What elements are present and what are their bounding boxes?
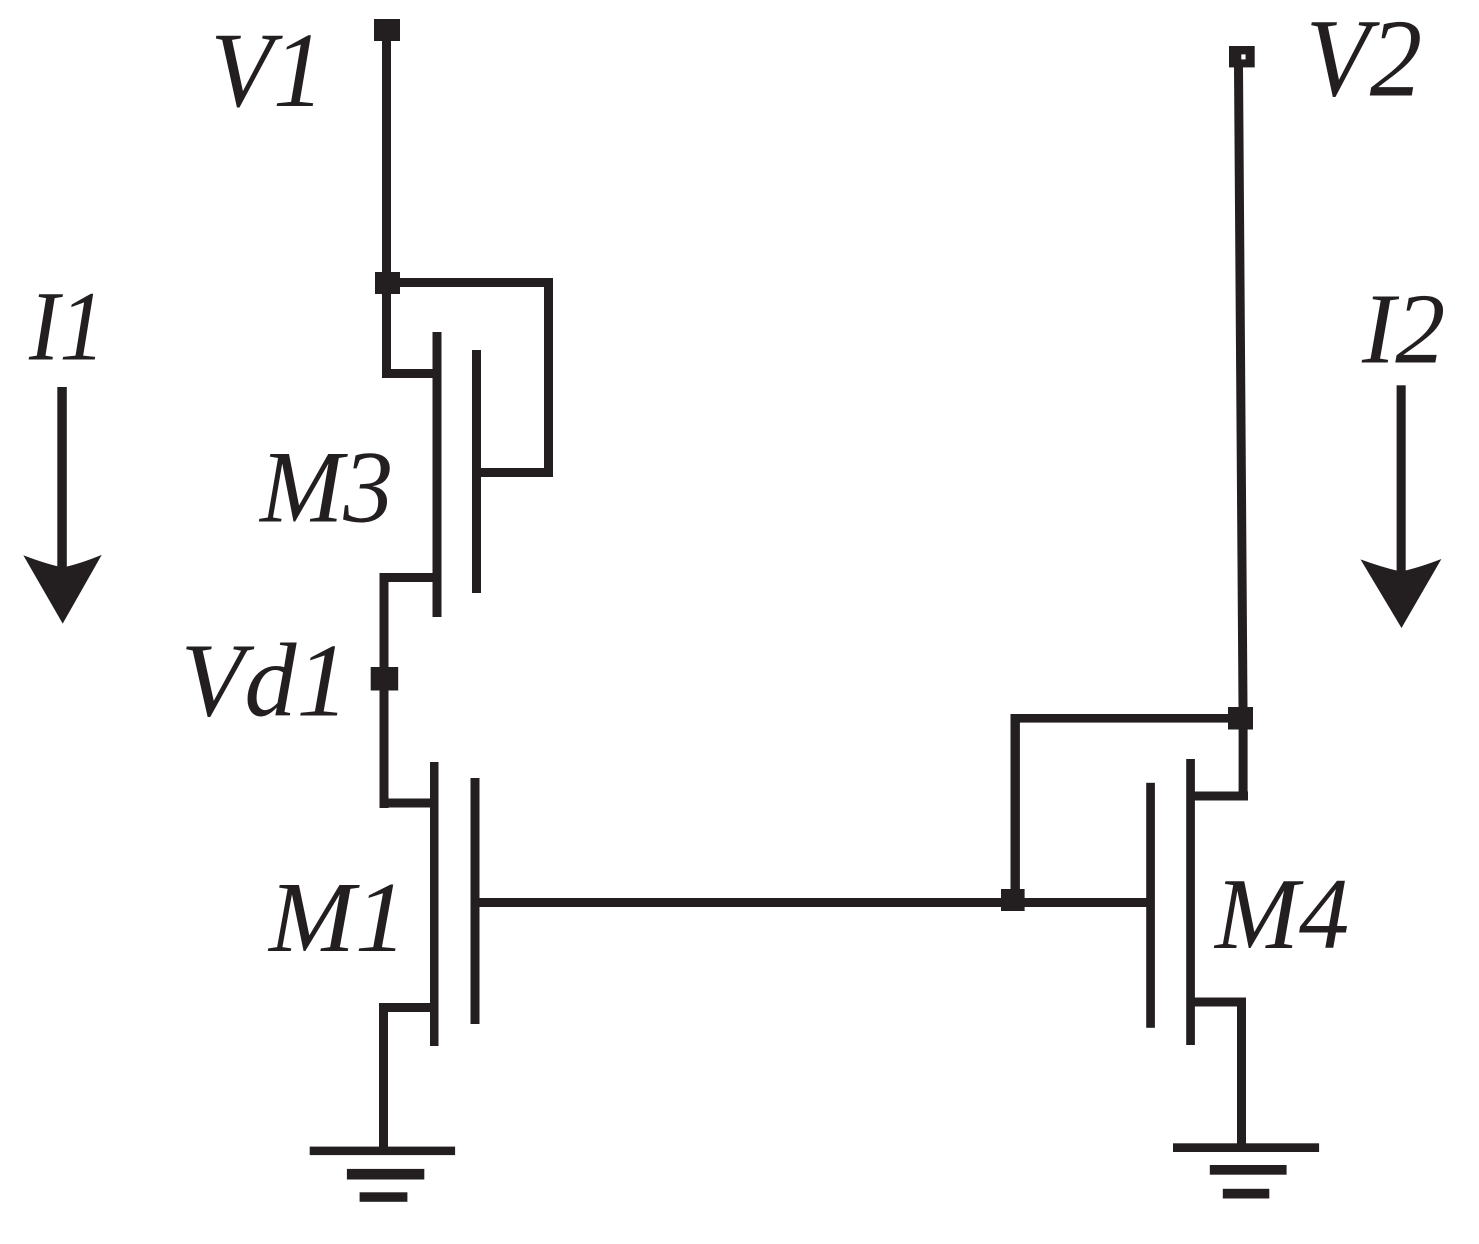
svg-text:Vd1: Vd1: [181, 622, 349, 738]
svg-text:V2: V2: [1306, 0, 1422, 120]
svg-text:M1: M1: [267, 862, 407, 974]
svg-text:I2: I2: [1361, 272, 1445, 385]
svg-text:M4: M4: [1213, 858, 1349, 971]
svg-text:M3: M3: [258, 429, 393, 544]
svg-text:V1: V1: [210, 11, 324, 129]
svg-text:I1: I1: [28, 271, 105, 382]
